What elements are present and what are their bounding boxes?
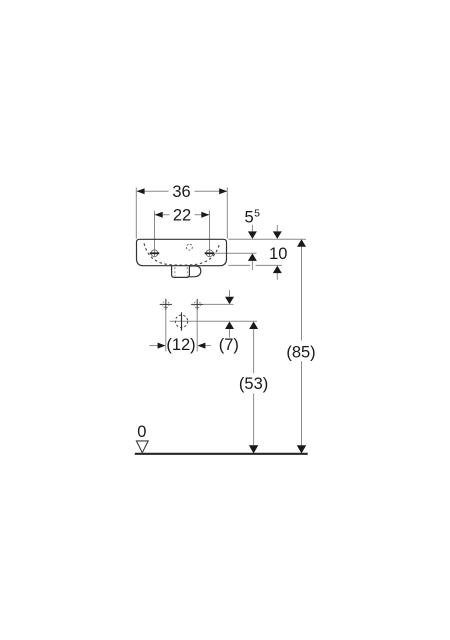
svg-text:0: 0 [137, 423, 146, 441]
svg-text:5: 5 [254, 207, 260, 219]
svg-text:22: 22 [173, 207, 191, 225]
svg-text:5: 5 [245, 208, 254, 226]
svg-text:36: 36 [172, 183, 190, 201]
svg-text:(7): (7) [219, 336, 239, 354]
svg-text:10: 10 [269, 245, 287, 263]
svg-text:(12): (12) [166, 336, 195, 354]
svg-text:(85): (85) [286, 344, 315, 362]
svg-text:(53): (53) [239, 375, 268, 393]
